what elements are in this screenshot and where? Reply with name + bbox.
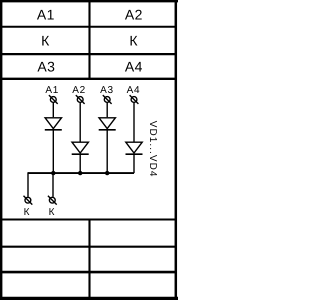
svg-text:К: К <box>129 32 138 48</box>
svg-text:К: К <box>41 32 50 48</box>
svg-text:A1: A1 <box>37 6 55 22</box>
svg-text:VD1...VD4: VD1...VD4 <box>147 121 158 178</box>
svg-text:A4: A4 <box>127 85 141 96</box>
svg-text:К: К <box>24 207 30 218</box>
svg-text:A2: A2 <box>72 85 86 96</box>
svg-text:A4: A4 <box>125 59 143 75</box>
svg-text:К: К <box>49 207 55 218</box>
svg-text:A3: A3 <box>100 85 114 96</box>
svg-text:A3: A3 <box>37 59 55 75</box>
svg-text:A2: A2 <box>125 6 143 22</box>
svg-text:A1: A1 <box>45 85 59 96</box>
